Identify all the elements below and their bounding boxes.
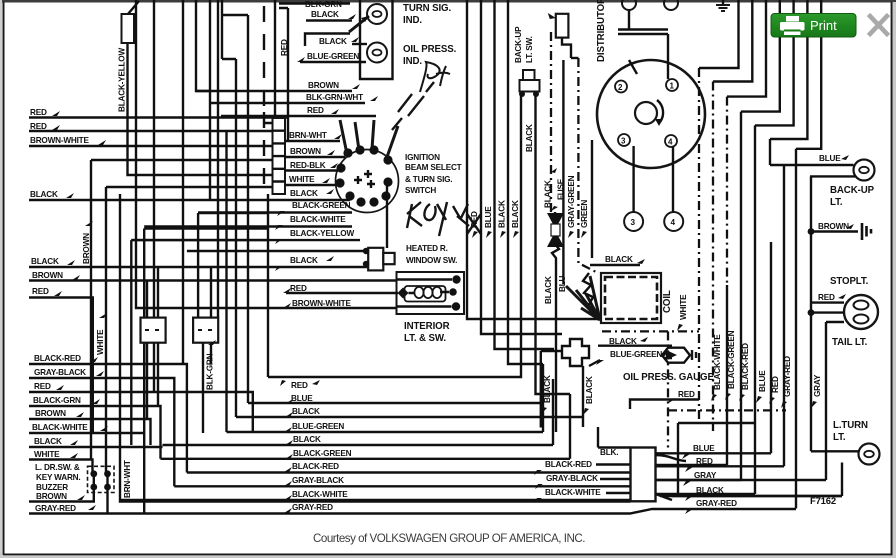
label BLUE-GREEN bottom xyxy=(227,364,544,432)
svg-text:IND.: IND. xyxy=(403,15,422,26)
label BLK-GRN-WHT xyxy=(210,93,378,103)
svg-text:BLUE: BLUE xyxy=(693,444,715,453)
svg-text:RED: RED xyxy=(34,382,51,391)
vertical x226 blue-green riser xyxy=(225,131,227,432)
svg-text:BLACK: BLACK xyxy=(544,180,553,208)
right rotated labels xyxy=(677,294,688,331)
svg-text:BLUE: BLUE xyxy=(758,370,767,392)
svg-text:BLACK-WHITE: BLACK-WHITE xyxy=(292,490,348,499)
label BLACK-GREEN bottom xyxy=(161,394,571,459)
label BLACK ign xyxy=(290,189,334,198)
svg-text:BROWN-WHITE: BROWN-WHITE xyxy=(292,299,351,308)
heated window switch xyxy=(187,248,395,271)
svg-text:BROWN-WHITE: BROWN-WHITE xyxy=(30,136,89,145)
second row labels near connector xyxy=(534,460,631,475)
vertical x196 jog xyxy=(196,0,222,200)
stop tail lamp xyxy=(808,295,878,329)
connector strip xyxy=(273,118,286,194)
svg-text:BLACK: BLACK xyxy=(290,256,318,265)
coil box xyxy=(601,273,673,323)
svg-text:BLACK: BLACK xyxy=(30,190,58,199)
svg-text:GRAY-BLACK: GRAY-BLACK xyxy=(34,368,86,377)
left label BLACK-WHITE xyxy=(29,423,144,433)
label BLUE backup xyxy=(819,154,849,163)
svg-text:RED-BLK: RED-BLK xyxy=(290,161,326,170)
svg-text:WHITE: WHITE xyxy=(34,450,60,459)
left label WHITE xyxy=(29,450,93,474)
svg-text:BLACK-RED: BLACK-RED xyxy=(34,354,81,363)
svg-text:3: 3 xyxy=(631,218,636,227)
ground symbol top xyxy=(716,0,730,11)
mid vertical bundle xyxy=(467,0,600,364)
label BROWN xyxy=(285,147,345,157)
svg-text:BROWN: BROWN xyxy=(35,409,66,418)
svg-text:BLACK: BLACK xyxy=(585,376,594,404)
label RED mid xyxy=(280,380,320,390)
vertical x275 into connector strip xyxy=(274,0,276,118)
svg-text:BLACK: BLACK xyxy=(290,189,318,198)
svg-text:BLUE: BLUE xyxy=(819,154,841,163)
svg-text:BROWN: BROWN xyxy=(82,233,91,264)
svg-text:HEATED R.: HEATED R. xyxy=(406,244,448,253)
label BROWN-WHITE lower xyxy=(283,299,351,308)
oil pressure gauge symbol xyxy=(662,348,696,363)
brown ground wire xyxy=(808,222,871,240)
svg-text:OIL PRESS.: OIL PRESS. xyxy=(403,44,457,55)
label BLACK lamp1 xyxy=(306,10,369,32)
svg-text:RED: RED xyxy=(30,108,47,117)
svg-text:BLACK: BLACK xyxy=(293,435,321,444)
svg-text:1: 1 xyxy=(670,82,675,91)
svg-text:GRAY-BLACK: GRAY-BLACK xyxy=(292,476,344,485)
svg-text:Print: Print xyxy=(810,18,837,33)
svg-text:BEAM SELECT: BEAM SELECT xyxy=(405,163,462,172)
svg-text:GRAY-RED: GRAY-RED xyxy=(35,504,76,513)
label BLACK-YELLOW xyxy=(131,229,360,244)
dashed vertical x264 xyxy=(263,6,265,184)
long vertical x136 to brown-white lower wire xyxy=(136,0,397,308)
svg-text:GRAY: GRAY xyxy=(694,471,717,480)
left label BROWN 3 xyxy=(29,487,94,502)
svg-text:BLUE-GREEN: BLUE-GREEN xyxy=(292,422,344,431)
svg-text:BLK-GRN-WHT: BLK-GRN-WHT xyxy=(306,93,363,102)
label BROWN top xyxy=(196,81,360,91)
svg-text:FUSE: FUSE xyxy=(557,178,566,200)
long vertical black-yellow with fuse rect xyxy=(118,1,273,175)
svg-text:IND.: IND. xyxy=(403,56,422,67)
vertical x810 tail light feed xyxy=(810,176,812,451)
svg-text:BLACK-GREEN: BLACK-GREEN xyxy=(292,201,351,210)
label RED stop xyxy=(818,293,846,302)
svg-text:BLACK: BLACK xyxy=(31,257,59,266)
label RED gauge xyxy=(630,390,699,409)
svg-text:WHITE: WHITE xyxy=(289,175,315,184)
svg-text:WHITE: WHITE xyxy=(96,329,105,355)
BLK label xyxy=(598,427,631,457)
svg-text:LT.: LT. xyxy=(833,432,846,443)
text OIL PRESS IND xyxy=(403,44,457,67)
nest vertical x120 brn-wht riser xyxy=(120,194,631,502)
svg-text:BLACK: BLACK xyxy=(498,200,507,228)
distributor circle xyxy=(597,60,705,168)
svg-text:BLACK: BLACK xyxy=(696,486,724,495)
text INTERIOR LT & SW xyxy=(404,321,450,344)
label BLACK lamp2 bracket xyxy=(305,34,367,47)
rotated labels GRAY-GREEN GREEN xyxy=(567,175,576,238)
label BLUE-GREEN gauge xyxy=(589,350,672,366)
back-up lamp xyxy=(770,160,875,181)
top cut label xyxy=(279,0,350,9)
svg-text:RED: RED xyxy=(30,122,47,131)
svg-text:RED: RED xyxy=(771,376,780,393)
svg-text:BLACK: BLACK xyxy=(543,375,552,403)
svg-text:TAIL LT.: TAIL LT. xyxy=(832,337,868,348)
svg-text:RED: RED xyxy=(307,106,324,115)
svg-text:BLACK-WHITE: BLACK-WHITE xyxy=(290,215,346,224)
text L TURN LT xyxy=(833,420,868,443)
handwritten KEY scrawl xyxy=(407,202,481,236)
svg-text:LT. SW.: LT. SW. xyxy=(525,36,534,63)
svg-text:WINDOW SW.: WINDOW SW. xyxy=(406,256,457,265)
turn sig indicator lamp xyxy=(367,4,387,24)
svg-text:RED: RED xyxy=(32,287,49,296)
left label RED 3 wire turns down at x92 xyxy=(29,287,93,433)
svg-text:STOPLT.: STOPLT. xyxy=(830,276,869,287)
svg-text:LT.: LT. xyxy=(830,197,843,208)
svg-text:IGNITION: IGNITION xyxy=(405,153,440,162)
svg-text:BLUE: BLUE xyxy=(484,206,493,228)
rear connector rect xyxy=(631,448,843,502)
left label BROWN-WHITE xyxy=(29,136,272,146)
svg-text:BACK-UP: BACK-UP xyxy=(514,26,523,63)
rotated cut labels above coil xyxy=(544,275,567,304)
svg-text:BROWN: BROWN xyxy=(290,147,321,156)
svg-text:4: 4 xyxy=(668,138,673,147)
svg-text:RED: RED xyxy=(291,381,308,390)
nest vertical x144 xyxy=(143,229,145,514)
svg-text:GRAY-BLACK: GRAY-BLACK xyxy=(546,474,598,483)
left turn lamp xyxy=(811,444,880,497)
ignition switch connector circle xyxy=(335,120,398,213)
label BLACK-RED bottom xyxy=(187,462,631,473)
cross connector xyxy=(562,339,589,366)
svg-text:BRN-WHT: BRN-WHT xyxy=(123,460,132,498)
label GRAY-BLACK bottom xyxy=(174,476,630,486)
label BLACK-WHITE bottom xyxy=(120,490,631,500)
svg-text:BLACK: BLACK xyxy=(319,37,347,46)
svg-text:Courtesy of VOLKSWAGEN GROUP O: Courtesy of VOLKSWAGEN GROUP OF AMERICA,… xyxy=(313,532,585,545)
coil fan wires xyxy=(566,276,600,320)
terminal circle 4 below xyxy=(664,147,683,231)
back-up lt switch xyxy=(514,26,540,97)
svg-text:BLACK-YELLOW: BLACK-YELLOW xyxy=(290,229,354,238)
label BLACK rotated under switch xyxy=(525,124,534,152)
svg-text:BLU: BLU xyxy=(558,275,567,292)
svg-text:GRAY: GRAY xyxy=(813,374,822,397)
label BLACK mid xyxy=(285,407,320,417)
svg-text:GRAY-GREEN: GRAY-GREEN xyxy=(567,175,576,228)
label BRN-WHT xyxy=(285,131,342,141)
vertical x221 top jog xyxy=(221,15,541,403)
svg-text:RED: RED xyxy=(290,284,307,293)
svg-text:GRAY-RED: GRAY-RED xyxy=(292,503,333,512)
indicator lamp box xyxy=(360,0,393,79)
nest vertical x198 xyxy=(197,213,199,318)
left label RED 4 xyxy=(29,382,253,432)
handwritten B+ scrawl xyxy=(420,62,450,92)
label BROWN rotated left xyxy=(82,221,93,264)
text BACK-UP LT xyxy=(830,185,875,208)
scribble marks xyxy=(392,82,434,130)
label BLACK heated xyxy=(275,256,334,271)
svg-text:GRAY-RED: GRAY-RED xyxy=(783,356,792,397)
svg-text:DISTRIBUTOR: DISTRIBUTOR xyxy=(596,0,607,62)
svg-text:& TURN SIG.: & TURN SIG. xyxy=(405,175,452,184)
nest vertical x106 xyxy=(105,187,107,474)
long vertical x154 through relay box1 xyxy=(153,0,155,392)
svg-text:TURN SIG.: TURN SIG. xyxy=(403,3,451,14)
left label BLACK xyxy=(29,190,350,200)
label BLACK coil top xyxy=(590,255,645,265)
svg-text:BACK-UP: BACK-UP xyxy=(830,185,875,196)
svg-text:BLACK-WHITE: BLACK-WHITE xyxy=(713,334,722,390)
label BLUE mid xyxy=(285,394,313,404)
strip feed wires xyxy=(91,123,273,187)
svg-text:BLACK: BLACK xyxy=(511,200,520,228)
svg-text:BLUE: BLUE xyxy=(291,394,313,403)
svg-text:COIL: COIL xyxy=(662,290,673,313)
left label BLACK 2 xyxy=(29,257,368,267)
svg-text:WHITE: WHITE xyxy=(679,294,688,320)
svg-text:RED: RED xyxy=(678,390,695,399)
left label BLACK-RED xyxy=(29,354,187,473)
back-up switch component top xyxy=(548,13,571,58)
vertical x218 jog xyxy=(218,0,583,417)
svg-text:L.TURN: L.TURN xyxy=(833,420,868,431)
buzzer wires xyxy=(94,474,108,514)
svg-text:BLUE-GREEN: BLUE-GREEN xyxy=(610,350,662,359)
page chrome left border xyxy=(0,0,2,558)
svg-text:RED: RED xyxy=(696,457,713,466)
back-up lt switch wires down xyxy=(268,94,570,394)
svg-text:RED: RED xyxy=(280,39,289,56)
relay box2 xyxy=(193,267,218,433)
jog horizontals bottom right xyxy=(678,423,755,496)
terminal circle 3 below xyxy=(624,146,643,231)
page chrome right border and gray strip xyxy=(891,2,893,556)
wire from tail lamp down xyxy=(826,322,844,480)
svg-text:BLACK-RED: BLACK-RED xyxy=(741,343,750,390)
svg-text:BUZZER: BUZZER xyxy=(36,483,68,492)
rotated BLACK pair above rect connector xyxy=(541,375,552,414)
svg-text:BLACK-RED: BLACK-RED xyxy=(292,462,339,471)
left label BLACK 3 xyxy=(29,437,163,447)
oil press indicator lamp xyxy=(367,43,387,63)
vertical x288 with rotated RED label xyxy=(279,8,289,142)
nest vertical x91 xyxy=(90,160,92,460)
svg-text:BROWN: BROWN xyxy=(32,271,63,280)
long vertical x183 xyxy=(182,0,184,364)
label WHITE xyxy=(285,175,338,185)
svg-text:BLACK: BLACK xyxy=(292,407,320,416)
label BLUE-GREEN lamp2 xyxy=(297,52,366,62)
buzzer connector box xyxy=(88,466,115,492)
svg-text:GRAY-RED: GRAY-RED xyxy=(696,499,737,508)
relay box1 xyxy=(141,267,166,419)
svg-text:F7162: F7162 xyxy=(810,496,836,507)
label RED interior xyxy=(283,284,398,293)
text IGNITION BEAM SELECT TURN SIG SWITCH xyxy=(405,153,462,195)
label BLK-GRN rotated xyxy=(206,340,217,390)
left label GRAY-BLACK xyxy=(29,368,174,486)
right staircase wires xyxy=(699,0,821,149)
svg-text:INTERIOR: INTERIOR xyxy=(404,321,450,332)
distributor top terminals xyxy=(618,0,678,79)
label GRAY-RED bottom xyxy=(284,503,333,513)
page chrome top bar xyxy=(0,0,896,3)
text HEATED R WINDOW SW xyxy=(406,244,457,265)
left label RED 1 xyxy=(29,108,288,118)
svg-text:BROWN: BROWN xyxy=(818,222,849,231)
svg-text:BLACK: BLACK xyxy=(34,437,62,446)
svg-text:BLACK: BLACK xyxy=(544,276,553,304)
left label BROWN xyxy=(29,271,397,281)
svg-text:BROWN: BROWN xyxy=(308,81,339,90)
svg-text:OIL PRESS. GAUGE: OIL PRESS. GAUGE xyxy=(623,372,714,383)
bottom right labels xyxy=(656,444,772,459)
buzzer text block xyxy=(35,463,80,492)
close X xyxy=(869,15,889,36)
label WHITE rotated xyxy=(96,313,107,355)
svg-text:2: 2 xyxy=(618,83,623,92)
svg-text:BLACK: BLACK xyxy=(605,255,633,264)
label RED-BLK xyxy=(285,161,341,171)
svg-text:BLUE-GREEN: BLUE-GREEN xyxy=(307,52,359,61)
label BLACK bottom xyxy=(163,379,554,445)
left label GRAY-RED long bottom wire xyxy=(29,504,796,514)
svg-text:BLACK: BLACK xyxy=(311,10,339,19)
svg-text:KEY WARN.: KEY WARN. xyxy=(36,473,80,482)
svg-text:BLK-GRN: BLK-GRN xyxy=(206,353,215,390)
svg-text:GREEN: GREEN xyxy=(580,200,589,228)
label RED top xyxy=(221,106,376,116)
rotated labels RED BLUE BLACK BLACK xyxy=(470,211,479,238)
left label BROWN 2 xyxy=(29,409,151,445)
svg-text:L. DR.SW. &: L. DR.SW. & xyxy=(35,463,80,472)
svg-text:RED: RED xyxy=(470,211,479,228)
svg-text:BLACK-WHITE: BLACK-WHITE xyxy=(545,488,601,497)
svg-text:BLK.: BLK. xyxy=(600,448,618,457)
svg-text:BLACK-GREEN: BLACK-GREEN xyxy=(727,330,736,389)
right bundle verticals xyxy=(698,68,700,423)
svg-text:LT. & SW.: LT. & SW. xyxy=(404,333,446,344)
interior light component xyxy=(397,272,465,314)
svg-text:BLACK-GRN: BLACK-GRN xyxy=(33,396,81,405)
svg-text:4: 4 xyxy=(671,218,676,227)
nest horizontals to ignition labels xyxy=(131,213,268,240)
left label RED 2 xyxy=(29,122,258,131)
fuse symbol xyxy=(544,168,566,432)
svg-text:BRN-WHT: BRN-WHT xyxy=(289,131,327,140)
svg-text:BROWN: BROWN xyxy=(36,492,67,501)
label BLACK under coil xyxy=(598,337,672,346)
svg-text:SWITCH: SWITCH xyxy=(405,186,436,195)
nest vertical x131 xyxy=(130,240,132,445)
svg-text:RED: RED xyxy=(818,293,835,302)
svg-text:3: 3 xyxy=(621,137,626,146)
left label BLACK-GRN xyxy=(29,396,161,459)
dash-dot vertical x578 xyxy=(578,58,598,273)
page chrome bottom border and gray strip xyxy=(3,554,892,556)
svg-text:BLACK-RED: BLACK-RED xyxy=(545,460,592,469)
svg-text:BLACK-GREEN: BLACK-GREEN xyxy=(293,449,352,458)
label BLACK-GREEN xyxy=(198,201,352,216)
dash-dot vertical x551 xyxy=(550,32,552,212)
svg-text:BLACK-WHITE: BLACK-WHITE xyxy=(32,423,88,432)
svg-text:BLK-GRN: BLK-GRN xyxy=(305,0,342,9)
dash-dot from coil right xyxy=(602,331,699,447)
svg-text:BLACK-YELLOW: BLACK-YELLOW xyxy=(118,48,127,112)
text TURN SIG IND xyxy=(403,3,451,26)
label BLACK-WHITE xyxy=(144,215,352,230)
svg-text:BLACK: BLACK xyxy=(525,124,534,152)
